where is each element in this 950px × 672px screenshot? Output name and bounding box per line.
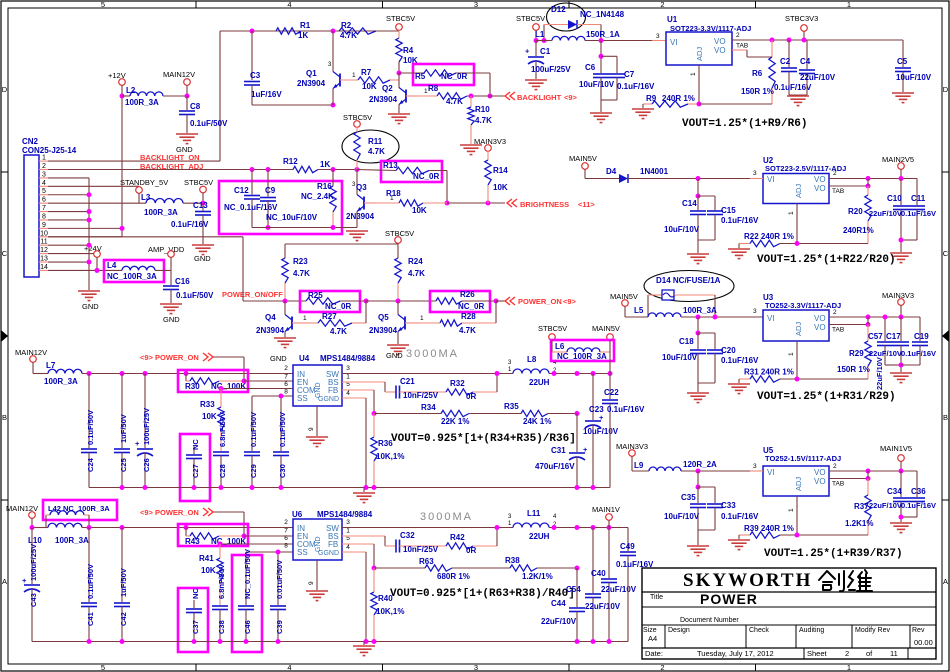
mid-edge fold marks bbox=[1, 330, 8, 342]
svg-text:VOUT=0.925*[1+(R63+R38)/R40]: VOUT=0.925*[1+(R63+R38)/R40] bbox=[390, 588, 575, 600]
inductor L6 NC_100R_3A bbox=[551, 340, 553, 352]
svg-text:SKYWORTH: SKYWORTH bbox=[683, 570, 812, 591]
svg-text:0.1uF/50V: 0.1uF/50V bbox=[86, 564, 95, 599]
svg-text:C7: C7 bbox=[624, 70, 635, 79]
GND bus of CN2 pins bbox=[88, 178, 90, 290]
resistor R38 1.2K/1% bbox=[510, 565, 537, 571]
svg-text:C34: C34 bbox=[887, 487, 902, 496]
svg-text:2: 2 bbox=[833, 309, 837, 316]
junction dot R16 bottom bbox=[331, 225, 336, 230]
svg-text:3: 3 bbox=[42, 171, 46, 178]
capacitor C31 470uF/16V bbox=[576, 414, 578, 453]
junction dots U6 output bus bbox=[552, 525, 557, 530]
svg-text:240R 1%: 240R 1% bbox=[662, 94, 695, 103]
svg-text:22uF/10V: 22uF/10V bbox=[601, 585, 637, 594]
svg-text:1N4001: 1N4001 bbox=[640, 167, 669, 176]
resistor R4 bbox=[396, 38, 402, 62]
svg-text:TAB: TAB bbox=[736, 43, 748, 50]
wire C30 tap U4 bbox=[280, 396, 282, 451]
svg-text:L9: L9 bbox=[634, 461, 644, 470]
wire +12V riser down bbox=[121, 96, 123, 237]
junction dot C13 top bbox=[201, 201, 206, 206]
svg-text:150R 1%: 150R 1% bbox=[837, 365, 870, 374]
svg-text:MAIN1V: MAIN1V bbox=[592, 505, 620, 514]
svg-text:Tuesday, July 17, 2012: Tuesday, July 17, 2012 bbox=[697, 649, 774, 658]
svg-text:VI: VI bbox=[767, 175, 775, 184]
U3 output wire bbox=[829, 316, 920, 318]
svg-text:2: 2 bbox=[284, 519, 288, 526]
capacitor C28 bbox=[213, 451, 229, 453]
junction dot R11 bottom bbox=[355, 167, 360, 172]
resistor R2 bbox=[339, 28, 376, 34]
wire brightness row bbox=[447, 202, 505, 204]
svg-text:0.1uF/16V: 0.1uF/16V bbox=[901, 209, 936, 218]
resistor R5 NC_0R bbox=[399, 72, 424, 74]
svg-text:R41: R41 bbox=[199, 554, 214, 563]
svg-text:R31 240R 1%: R31 240R 1% bbox=[744, 368, 794, 377]
svg-text:1: 1 bbox=[346, 528, 350, 535]
svg-text:7: 7 bbox=[42, 205, 46, 212]
highlight box C46 bbox=[232, 555, 262, 652]
svg-text:C23: C23 bbox=[589, 405, 604, 414]
resistor R6 bbox=[771, 40, 773, 57]
svg-text:12: 12 bbox=[40, 247, 48, 254]
svg-text:100uF/25V: 100uF/25V bbox=[531, 65, 571, 74]
U4 bottom bus bbox=[89, 487, 610, 489]
svg-text:4.7K: 4.7K bbox=[368, 147, 385, 156]
capacitor C37 NC bbox=[193, 600, 195, 608]
svg-text:Q1: Q1 bbox=[306, 69, 317, 78]
junction dot R38 right bbox=[575, 566, 580, 571]
ground C5 bbox=[892, 92, 914, 94]
power symbol MAIN1V5 bbox=[898, 455, 905, 462]
junction dot L9/C35 bbox=[696, 469, 701, 474]
junction dot Q1 emitter node bbox=[331, 103, 336, 108]
junction dot R4 bottom bbox=[397, 71, 402, 76]
svg-text:100R_3A: 100R_3A bbox=[55, 536, 89, 545]
transistor Q1 2N3904 bbox=[332, 31, 334, 72]
svg-text:R8: R8 bbox=[428, 84, 439, 93]
CN2 pin 13 bbox=[39, 261, 48, 263]
svg-text:3: 3 bbox=[474, 0, 478, 9]
svg-text:7: 7 bbox=[284, 528, 288, 535]
U4 SW wire bbox=[342, 373, 513, 375]
svg-text:L8: L8 bbox=[527, 355, 537, 364]
svg-text:A: A bbox=[943, 577, 948, 586]
wire COM row U4 bbox=[221, 388, 293, 390]
svg-text:C33: C33 bbox=[721, 501, 736, 510]
svg-text:L2: L2 bbox=[126, 86, 136, 95]
svg-text:0.1uF/16V: 0.1uF/16V bbox=[901, 349, 936, 358]
svg-text:GND: GND bbox=[163, 315, 180, 324]
wire pin9 bbox=[48, 227, 122, 229]
capacitor C30 bbox=[273, 451, 289, 453]
svg-text:11: 11 bbox=[40, 239, 47, 246]
power symbol MAIN2V5 bbox=[898, 163, 905, 170]
svg-text:150R_1A: 150R_1A bbox=[586, 30, 620, 39]
svg-text:NC_0.1uF/16V: NC_0.1uF/16V bbox=[224, 203, 278, 212]
svg-text:BACKLIGHT: BACKLIGHT bbox=[517, 93, 562, 102]
svg-text:00.00: 00.00 bbox=[914, 638, 933, 647]
svg-text:C39: C39 bbox=[275, 620, 284, 634]
svg-text:MAIN5V: MAIN5V bbox=[592, 324, 620, 333]
svg-text:L42 NC_100R_3A: L42 NC_100R_3A bbox=[48, 504, 110, 513]
ground C2/C4 bbox=[787, 95, 809, 97]
resistor R43 NC_100K bbox=[185, 528, 187, 537]
svg-text:0.1uF/16V: 0.1uF/16V bbox=[721, 356, 759, 365]
svg-text:D12: D12 bbox=[551, 5, 566, 14]
svg-text:22uF/10V: 22uF/10V bbox=[541, 617, 577, 626]
svg-text:3: 3 bbox=[753, 170, 757, 177]
svg-text:NC_1N4148: NC_1N4148 bbox=[580, 10, 625, 19]
ground U4 bottom mid bbox=[363, 488, 365, 493]
capacitor C4 bbox=[806, 40, 808, 69]
ground R9 bbox=[642, 104, 644, 108]
junction dot EN U6 bbox=[242, 534, 247, 539]
svg-text:<9> POWER_ON: <9> POWER_ON bbox=[140, 353, 199, 362]
svg-text:C11: C11 bbox=[911, 194, 926, 203]
resistor R35 24K 1% bbox=[521, 410, 548, 416]
svg-text:Check: Check bbox=[749, 627, 769, 634]
svg-text:R23: R23 bbox=[293, 257, 308, 266]
junction dot FB node U6 bbox=[372, 566, 377, 571]
junction dot C2 top bbox=[787, 38, 792, 43]
highlight box R25 bbox=[300, 291, 360, 312]
capacitor C10 bbox=[900, 179, 902, 206]
svg-text:22uF/10V: 22uF/10V bbox=[800, 73, 836, 82]
svg-text:0.1uF/16V: 0.1uF/16V bbox=[901, 501, 936, 510]
svg-text:L3: L3 bbox=[141, 193, 151, 202]
resistor R10 bbox=[470, 96, 472, 107]
resistor R63 680R 1% bbox=[425, 565, 452, 571]
svg-text:1.2K1%: 1.2K1% bbox=[845, 519, 873, 528]
svg-text:C37: C37 bbox=[191, 620, 200, 634]
highlight box C37 bbox=[178, 588, 208, 652]
transistor Q3 2N3904 bbox=[356, 170, 358, 195]
power symbol MAIN1V bbox=[606, 514, 613, 521]
U5 pin1 ADJ wire bbox=[796, 496, 798, 535]
U6 bottom bus bbox=[32, 641, 628, 643]
svg-text:C40: C40 bbox=[591, 569, 606, 578]
svg-text:0.1uF/50V: 0.1uF/50V bbox=[86, 410, 95, 445]
svg-text:R38: R38 bbox=[505, 556, 520, 565]
U3 TAB wire bbox=[829, 324, 868, 326]
svg-text:+: + bbox=[135, 439, 140, 448]
capacitor C29 bbox=[244, 451, 260, 453]
capacitor C8 bbox=[186, 96, 188, 110]
wire +24V down to pin14 row bbox=[96, 257, 98, 270]
svg-text:C41: C41 bbox=[86, 612, 95, 626]
svg-text:240R1%: 240R1% bbox=[843, 226, 874, 235]
svg-text:+: + bbox=[525, 47, 530, 56]
capacitor C23 10uF/10V bbox=[592, 374, 594, 421]
svg-text:10uF/10V: 10uF/10V bbox=[583, 427, 619, 436]
junction dot Q4 collector bbox=[283, 299, 288, 304]
wire power row bbox=[243, 300, 306, 302]
svg-text:0.1uF/50V: 0.1uF/50V bbox=[176, 291, 214, 300]
svg-text:3000MA: 3000MA bbox=[420, 511, 473, 523]
svg-text:R39 240R 1%: R39 240R 1% bbox=[744, 524, 794, 533]
svg-text:R30: R30 bbox=[185, 382, 200, 391]
diode D12 NC_1N4148 bbox=[543, 25, 545, 41]
capacitor C38 bbox=[212, 605, 228, 607]
wire power row 2 bbox=[366, 300, 436, 302]
svg-text:5: 5 bbox=[101, 663, 105, 672]
U2 TAB wire bbox=[829, 185, 868, 187]
capacitor C36 bbox=[916, 471, 918, 497]
svg-text:<9> POWER_ON: <9> POWER_ON bbox=[140, 508, 199, 517]
capacitor C43 100uF/25V bbox=[31, 528, 33, 585]
svg-text:9: 9 bbox=[308, 581, 315, 585]
resistor R20 bbox=[867, 186, 869, 195]
svg-text:C21: C21 bbox=[400, 377, 415, 386]
capacitor C20 bbox=[698, 332, 715, 334]
ground C34/C36 bbox=[890, 522, 912, 524]
svg-text:13: 13 bbox=[40, 256, 48, 263]
svg-text:C3: C3 bbox=[250, 71, 261, 80]
power symbol MAIN12V (L7) bbox=[30, 356, 37, 363]
resistor R25 NC_0R bbox=[306, 298, 340, 304]
svg-text:0.01uF/50V: 0.01uF/50V bbox=[275, 560, 284, 599]
svg-text:R37: R37 bbox=[854, 502, 869, 511]
inductor L10 bbox=[32, 527, 48, 529]
resistor R12 bbox=[293, 166, 318, 172]
svg-text:R2: R2 bbox=[341, 21, 352, 30]
U5 TAB wire bbox=[829, 478, 868, 480]
svg-text:R10: R10 bbox=[475, 105, 490, 114]
svg-text:R26: R26 bbox=[460, 290, 475, 299]
junction dot C12 top bbox=[250, 167, 255, 172]
svg-text:0R: 0R bbox=[466, 392, 476, 401]
svg-text:10K: 10K bbox=[493, 183, 508, 192]
U4 pin9 GND bbox=[316, 406, 318, 436]
svg-text:GND: GND bbox=[270, 354, 287, 363]
highlight box R26 bbox=[430, 291, 490, 312]
svg-text:C26: C26 bbox=[142, 458, 151, 472]
junction dot D12 left bbox=[542, 38, 547, 43]
inductor L4 NC_100R_3A bbox=[122, 266, 155, 270]
CN2 pin 2 bbox=[39, 169, 48, 171]
svg-text:<9>: <9> bbox=[563, 297, 577, 306]
svg-text:NC: NC bbox=[191, 439, 200, 450]
power symbol MAIN5V (L6) bbox=[607, 334, 614, 341]
junction dot L1 right bbox=[599, 38, 604, 43]
ground Q4 bbox=[274, 337, 296, 339]
junction dot pin1/R31 bbox=[795, 377, 800, 382]
svg-text:C1: C1 bbox=[540, 47, 551, 56]
capacitor C42 bbox=[121, 528, 123, 603]
svg-text:MPS1484/9884: MPS1484/9884 bbox=[317, 510, 373, 519]
power symbol MAIN3V3 (U3) bbox=[898, 299, 905, 306]
svg-text:2N3904: 2N3904 bbox=[369, 326, 398, 335]
capacitor C16 bbox=[170, 270, 172, 285]
svg-text:3: 3 bbox=[346, 365, 350, 372]
svg-text:10K: 10K bbox=[201, 566, 216, 575]
CN2 pin 9 bbox=[39, 227, 48, 229]
transistor Q4 2N3904 bbox=[284, 301, 286, 315]
resistor R14 bbox=[487, 151, 489, 160]
svg-text:C17: C17 bbox=[886, 332, 901, 341]
wire to POWER_ON flag bbox=[496, 300, 505, 302]
svg-text:100R_3A: 100R_3A bbox=[125, 98, 159, 107]
wire pin13 bbox=[48, 261, 89, 263]
svg-text:FB: FB bbox=[328, 386, 338, 395]
svg-text:1K: 1K bbox=[320, 160, 330, 169]
svg-text:Q2: Q2 bbox=[382, 84, 393, 93]
junction dot C14 top bbox=[696, 176, 701, 181]
diode D4 1N4001 bbox=[619, 174, 628, 183]
svg-text:POWER_ON/OFF: POWER_ON/OFF bbox=[222, 290, 283, 299]
junction dot pin9 on +12V riser bbox=[120, 226, 125, 231]
svg-text:C14: C14 bbox=[682, 199, 697, 208]
svg-text:4.7K: 4.7K bbox=[293, 269, 310, 278]
inductor L3 bbox=[146, 199, 183, 204]
svg-text:Q5: Q5 bbox=[378, 313, 389, 322]
power symbol STBC5V (L6) bbox=[549, 334, 556, 341]
svg-text:0.1uF/50V: 0.1uF/50V bbox=[190, 119, 228, 128]
svg-text:10uF/10V: 10uF/10V bbox=[664, 512, 700, 521]
svg-text:D: D bbox=[943, 85, 949, 94]
svg-text:POWER: POWER bbox=[700, 591, 758, 607]
junction dots U5 TAB/out bbox=[866, 469, 871, 474]
U6 GGND wire bbox=[342, 551, 366, 553]
resistor R40 bbox=[373, 568, 375, 592]
svg-text:GND: GND bbox=[386, 351, 403, 360]
resistor R16 NC_2.4K bbox=[332, 170, 334, 186]
svg-text:TAB: TAB bbox=[832, 481, 844, 488]
junction dot L5/C18 bbox=[696, 315, 701, 320]
svg-text:Date:: Date: bbox=[645, 649, 663, 658]
junction dot C9 top bbox=[266, 167, 271, 172]
svg-text:2: 2 bbox=[284, 365, 288, 372]
svg-text:1: 1 bbox=[352, 72, 356, 79]
ground C6/C7 bbox=[590, 112, 612, 114]
power symbol STBC3V3 bbox=[801, 25, 808, 32]
wire STANDBY_5V to L3 bbox=[138, 193, 140, 204]
svg-text:4.7K: 4.7K bbox=[340, 31, 357, 40]
power symbol MAIN5V (L5) bbox=[622, 300, 629, 307]
svg-text:VO: VO bbox=[814, 468, 826, 477]
highlight box C12 C9 R16 bbox=[219, 181, 342, 234]
resistor R37 bbox=[867, 479, 869, 496]
junction dot SW/L8 bbox=[495, 371, 500, 376]
svg-text:8: 8 bbox=[284, 389, 288, 396]
svg-text:C42: C42 bbox=[119, 612, 128, 626]
svg-text:22UH: 22UH bbox=[529, 532, 550, 541]
svg-text:STBC5V: STBC5V bbox=[538, 324, 567, 333]
svg-text:Size: Size bbox=[643, 627, 657, 634]
svg-text:VOUT=1.25*(1+R39/R37): VOUT=1.25*(1+R39/R37) bbox=[764, 548, 903, 560]
svg-text:C: C bbox=[943, 249, 949, 258]
resistor R32 0R bbox=[446, 389, 473, 395]
svg-text:C: C bbox=[2, 249, 8, 258]
svg-text:C43: C43 bbox=[29, 593, 38, 607]
ground C14/C15 bbox=[687, 253, 709, 255]
svg-text:C28: C28 bbox=[218, 464, 227, 478]
capacitor C1 100uF/25V bbox=[535, 41, 537, 57]
wire pin10 riser to power row bbox=[48, 236, 122, 238]
svg-text:of: of bbox=[866, 649, 873, 658]
svg-text:AMP_VDD: AMP_VDD bbox=[148, 245, 185, 254]
svg-text:MAIN3V3: MAIN3V3 bbox=[474, 137, 506, 146]
junction dots main bus U6 bbox=[30, 525, 35, 530]
svg-text:R9: R9 bbox=[646, 94, 657, 103]
power symbol MAIN12V (L10) bbox=[29, 512, 36, 519]
svg-text:CN2: CN2 bbox=[22, 137, 39, 146]
junction dot Q5 collector bbox=[396, 299, 401, 304]
svg-text:10uF/10V: 10uF/10V bbox=[662, 353, 698, 362]
junction dot L1 left bbox=[534, 38, 539, 43]
ellipse mark around D12 bbox=[547, 3, 586, 31]
capacitor C39 bbox=[270, 605, 286, 607]
svg-text:C27: C27 bbox=[191, 464, 200, 478]
svg-text:1uF/50V: 1uF/50V bbox=[119, 414, 128, 443]
title row4 cells bbox=[664, 625, 666, 648]
svg-text:C29: C29 bbox=[249, 464, 258, 478]
svg-text:C2: C2 bbox=[780, 57, 791, 66]
svg-text:3: 3 bbox=[474, 663, 478, 672]
CN2 pin 3 bbox=[39, 177, 48, 179]
CN2 pin 8 bbox=[39, 219, 48, 221]
svg-text:NC_0R: NC_0R bbox=[413, 172, 439, 181]
svg-text:R43: R43 bbox=[185, 537, 200, 546]
U6 SW wire bbox=[342, 527, 513, 529]
ground C18/C20 bbox=[687, 392, 709, 394]
svg-text:R6: R6 bbox=[752, 69, 763, 78]
svg-text:R22 240R 1%: R22 240R 1% bbox=[744, 232, 794, 241]
svg-text:C15: C15 bbox=[721, 206, 736, 215]
inductor L2 bbox=[122, 95, 130, 97]
svg-text:22UH: 22UH bbox=[529, 378, 550, 387]
junction dot C3 top bbox=[250, 29, 255, 34]
svg-text:C22: C22 bbox=[604, 388, 619, 397]
svg-text:120R_2A: 120R_2A bbox=[683, 460, 717, 469]
svg-text:10uF/10V: 10uF/10V bbox=[664, 225, 700, 234]
svg-text:<9>: <9> bbox=[564, 93, 578, 102]
junction dot COM U4 bbox=[219, 386, 224, 391]
svg-text:Q4: Q4 bbox=[265, 313, 276, 322]
wire R23/R24 top bus bbox=[285, 243, 398, 245]
junction dot fuse right bbox=[713, 315, 718, 320]
capacitor C41 bbox=[88, 528, 90, 603]
highlight box R13 bbox=[381, 161, 442, 182]
svg-text:10nF/25V: 10nF/25V bbox=[403, 545, 439, 554]
svg-text:6.8nF/50V: 6.8nF/50V bbox=[218, 412, 227, 447]
svg-text:C19: C19 bbox=[914, 332, 929, 341]
power symbol +12V bbox=[119, 79, 126, 86]
highlight box L42 bbox=[43, 500, 117, 520]
wire pin11 bbox=[48, 244, 89, 246]
svg-text:NC_100R_3A: NC_100R_3A bbox=[557, 352, 607, 361]
svg-text:4.7K: 4.7K bbox=[459, 326, 476, 335]
svg-text:CON25-J25-14: CON25-J25-14 bbox=[22, 146, 77, 155]
wire C12/C9 bottom bus bbox=[252, 227, 357, 229]
capacitor C26 100uF/25V bbox=[144, 374, 146, 449]
junction dots on CN2 ground bus bbox=[87, 192, 92, 197]
svg-text:2N3904: 2N3904 bbox=[369, 95, 398, 104]
inductor L42 NC_100R_3A bbox=[45, 515, 47, 528]
power symbol +24V bbox=[94, 251, 101, 258]
svg-text:C9: C9 bbox=[265, 186, 276, 195]
svg-text:3: 3 bbox=[656, 33, 660, 40]
svg-text:POWER_ON: POWER_ON bbox=[518, 297, 562, 306]
svg-text:FB: FB bbox=[328, 540, 338, 549]
svg-text:22uF/10V: 22uF/10V bbox=[869, 501, 902, 510]
feedback row R63 R38 bbox=[374, 567, 425, 569]
svg-text:R27: R27 bbox=[322, 312, 337, 321]
svg-text:14: 14 bbox=[40, 264, 48, 271]
capacitor C54 22uF/10V bbox=[592, 528, 594, 594]
